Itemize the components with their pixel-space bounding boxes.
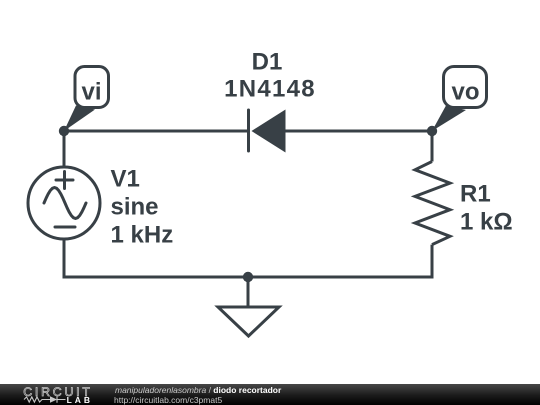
- wire top left (vi node to D1 cathode): [64, 130, 247, 133]
- ground stem: [247, 277, 250, 307]
- V1 sine wave: [44, 188, 86, 219]
- vo flag pointer: [432, 106, 466, 132]
- node vo dot: [427, 126, 437, 136]
- svg-text:1N4148: 1N4148: [224, 76, 316, 103]
- credit line 2: [114, 395, 222, 405]
- svg-text:vi: vi: [81, 79, 101, 106]
- svg-text:sine: sine: [111, 194, 159, 221]
- wire top right (D1 anode to vo node): [285, 130, 432, 133]
- footer bar: [0, 384, 540, 405]
- svg-text:R1: R1: [460, 181, 491, 208]
- svg-text:LAB: LAB: [67, 395, 93, 405]
- CircuitLab logo: [22, 384, 97, 405]
- V1 minus sign: [55, 226, 75, 229]
- voltage source V1 circle: [28, 167, 100, 239]
- ground triangle: [218, 307, 279, 336]
- vi flag box: [75, 67, 109, 108]
- svg-text:1 kHz: 1 kHz: [111, 222, 174, 249]
- V1 plus sign: [56, 172, 73, 189]
- node vi dot: [59, 126, 69, 136]
- svg-text:V1: V1: [111, 166, 140, 193]
- svg-text:1 kΩ: 1 kΩ: [460, 209, 513, 236]
- vi flag pointer: [64, 106, 95, 132]
- wire right column top (vo node to R1): [431, 131, 434, 162]
- diode D1 triangle: [252, 110, 286, 153]
- resistor R1: [415, 162, 450, 245]
- credit line 1: [115, 385, 281, 395]
- wire left column top (vi node to V1): [63, 131, 66, 167]
- svg-text:D1: D1: [252, 49, 283, 76]
- vo flag box: [444, 67, 487, 108]
- wire left column, bottom rail and right column: [64, 240, 432, 278]
- ground node dot: [243, 272, 253, 282]
- svg-text:vo: vo: [451, 79, 479, 106]
- diode D1 cathode bar: [247, 110, 250, 151]
